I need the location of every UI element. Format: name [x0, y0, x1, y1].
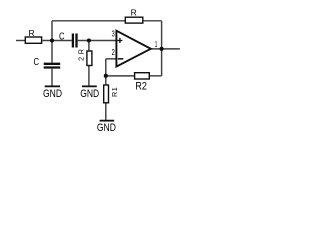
svg-text:1: 1	[155, 39, 158, 49]
wire R2 left to node B	[106, 75, 134, 77]
wire top feedback horizontal	[52, 20, 162, 22]
svg-text:R1: R1	[110, 87, 119, 97]
wire shunt cap to ground	[51, 69, 53, 87]
wire 2R bottom to ground	[88, 66, 90, 86]
svg-text:GND: GND	[80, 88, 99, 100]
svg-text:C: C	[59, 31, 65, 42]
node junction at output	[160, 47, 164, 51]
svg-text:2R: 2R	[76, 49, 85, 61]
wire op-amp output	[151, 48, 180, 50]
svg-text:R2: R2	[135, 80, 147, 92]
ground under 2R	[80, 86, 99, 100]
resistor 2R (vertical)	[76, 49, 92, 66]
wire -input vertical down to node B	[105, 59, 107, 76]
node A junction	[50, 38, 54, 42]
svg-text:R: R	[131, 8, 137, 18]
ground under shunt C	[43, 86, 62, 100]
wire -input horizontal	[106, 58, 117, 60]
resistor R2	[135, 73, 150, 93]
resistor R (left series)	[25, 28, 41, 43]
resistor R1 (vertical)	[104, 85, 119, 103]
svg-text:R: R	[29, 28, 35, 38]
svg-text:3: 3	[112, 29, 115, 39]
wire series cap to op-amp +input	[78, 40, 117, 42]
capacitor C (shunt)	[34, 57, 61, 68]
node B junction	[104, 74, 108, 78]
node junction at 2R tap	[87, 38, 91, 42]
wire R1 bottom to ground	[105, 103, 107, 120]
wire input stub	[16, 40, 25, 42]
resistor R (top feedback)	[125, 8, 143, 24]
capacitor C (series)	[59, 31, 77, 47]
wire vertical node A: top loop corner down to shunt cap	[51, 21, 53, 63]
ground under R1	[97, 121, 116, 134]
wire R to series cap	[43, 40, 72, 42]
svg-text:2: 2	[112, 47, 115, 57]
svg-text:C: C	[34, 57, 40, 68]
wire junction to 2R top	[88, 41, 90, 51]
svg-text:GND: GND	[97, 122, 116, 134]
op-amp U1	[112, 29, 158, 67]
svg-text:GND: GND	[43, 88, 62, 100]
wire node B to R1 top	[105, 76, 107, 85]
wire R2 right to feedback vertical	[150, 75, 162, 77]
wire right feedback vertical	[161, 21, 163, 76]
